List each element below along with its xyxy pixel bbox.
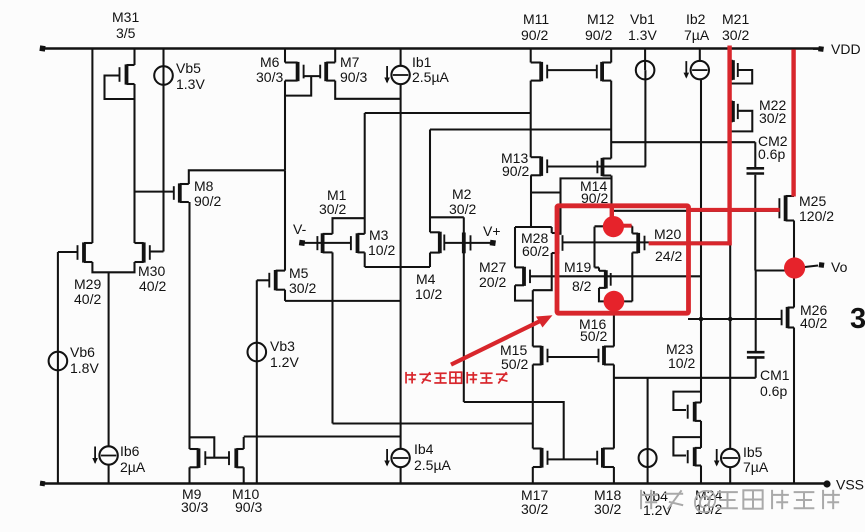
wire M19 drain	[598, 268, 600, 271]
transistor M20	[632, 233, 644, 253]
transistor M15	[533, 346, 548, 365]
voltage source Vb4	[639, 449, 657, 467]
svg-text:30/2: 30/2	[594, 501, 621, 517]
label M19 8/2	[564, 259, 592, 294]
label M4 10/2	[415, 271, 442, 302]
transistor M12	[597, 62, 611, 81]
wire M21 diode hook	[730, 70, 753, 84]
svg-text:1.2V: 1.2V	[643, 502, 672, 518]
wire M13-M15 column	[532, 290, 534, 346]
svg-text:90/3: 90/3	[340, 69, 367, 85]
svg-text:20/2: 20/2	[479, 274, 506, 290]
label M1 30/2	[319, 187, 347, 217]
red annotation arrow	[451, 315, 553, 364]
svg-text:30/2: 30/2	[521, 501, 548, 517]
wire M4 source down	[429, 253, 431, 267]
wire M3 M4 source bus	[365, 266, 430, 268]
wire Vo node link	[756, 269, 794, 271]
wire M1 drain link	[333, 218, 365, 234]
label M20 24/2	[654, 226, 682, 264]
label Ib1 2.5uA	[412, 54, 450, 85]
label M24 10/2	[695, 487, 722, 517]
wire M28 drain	[551, 227, 553, 233]
wire tail drop to Ib6	[108, 272, 110, 447]
transistor M18	[597, 448, 614, 468]
transistor M22	[730, 101, 738, 122]
wire CM1 top lead	[755, 271, 757, 352]
transistor M26	[782, 307, 794, 328]
svg-text:M5: M5	[289, 265, 309, 281]
wire CM2 top lead	[754, 142, 756, 167]
svg-text:VSS: VSS	[836, 477, 864, 493]
transistor M8	[174, 183, 189, 202]
wire M4 drain link	[430, 216, 464, 218]
svg-text:7µA: 7µA	[743, 459, 769, 475]
label Ib5 7uA	[743, 444, 769, 475]
transistor M16	[599, 346, 614, 365]
svg-text:CM1: CM1	[760, 367, 790, 383]
wire M10 drain up	[243, 437, 245, 449]
transistor M29	[78, 242, 93, 262]
node VSS terminal	[823, 480, 830, 487]
svg-text:1.2V: 1.2V	[270, 354, 299, 370]
transistor M1	[317, 233, 332, 253]
wire M22 diode hook	[730, 111, 753, 132]
label M5 30/2	[289, 265, 316, 296]
label M2 30/2	[449, 186, 476, 217]
wire M26 gate line	[688, 318, 782, 320]
wire M21 drain to VDD	[729, 49, 731, 61]
wire M3 source down	[364, 252, 366, 267]
svg-text:50/2: 50/2	[501, 356, 528, 372]
svg-text:10/2: 10/2	[668, 355, 695, 371]
label M23 10/2	[666, 341, 695, 371]
svg-text:V-: V-	[293, 221, 307, 237]
wire Vb3 line	[256, 280, 258, 483]
label M3 10/2	[368, 227, 395, 258]
svg-text:M29: M29	[74, 276, 101, 292]
capacitor CM2	[747, 168, 765, 173]
transistor M3	[351, 233, 365, 253]
svg-text:7µA: 7µA	[684, 27, 710, 43]
svg-text:2.5µA: 2.5µA	[414, 457, 452, 473]
transistor M24	[688, 447, 701, 466]
wire M8 drain up and bus to M6 drain	[189, 170, 285, 184]
svg-text:60/2: 60/2	[522, 243, 549, 259]
wire M16 source to M18	[613, 365, 615, 449]
label M25 120/2	[799, 193, 834, 224]
transistor M23	[688, 402, 701, 422]
wire Ib4 to VSS	[400, 467, 402, 484]
svg-text:Vb5: Vb5	[176, 60, 201, 76]
wire M1 source cross bus	[333, 422, 533, 424]
node VDD terminal	[813, 46, 824, 52]
label M16 50/2	[579, 316, 607, 344]
label M22 30/2	[759, 97, 786, 126]
svg-text:30/2: 30/2	[289, 280, 316, 296]
transistor M27	[515, 267, 530, 286]
wire tail bus	[285, 300, 401, 302]
wire M12 drain to VDD	[610, 49, 612, 63]
wire M6 diode hook	[285, 76, 311, 96]
wire branch up segment	[561, 178, 612, 192]
wire V+ gate line	[444, 242, 490, 244]
wire M20 drain up	[631, 226, 633, 233]
wire CM2 bottom to Vo node	[754, 175, 756, 271]
transistor M28	[552, 232, 563, 253]
svg-text:Vb6: Vb6	[70, 344, 95, 360]
svg-text:Vo: Vo	[831, 259, 848, 275]
svg-text:2µA: 2µA	[120, 459, 146, 475]
transistor M5	[269, 270, 285, 290]
transistor M30	[135, 242, 150, 262]
red highlight M25 drain wire	[791, 50, 795, 197]
wire M23 source to M24	[700, 421, 702, 448]
svg-text:M12: M12	[587, 11, 614, 27]
wire node A horizontal	[595, 225, 633, 227]
watermark zhihu text	[641, 485, 840, 515]
svg-text:30/2: 30/2	[759, 110, 786, 126]
wire M13 source column	[530, 175, 532, 227]
label CM2 0.6p	[758, 133, 788, 162]
wire M9 source to VSS	[188, 467, 190, 483]
label M11 90/2	[521, 11, 549, 43]
transistor M10	[229, 448, 244, 468]
wire M13 source branch	[531, 191, 561, 193]
wire branch down to M28 gate	[559, 193, 561, 235]
wire Vb5 bottom to M30 gate	[150, 250, 164, 252]
wire Ib2 top to VDD	[699, 49, 701, 62]
wire M22 source down	[729, 121, 731, 142]
label M14 90/2	[580, 178, 608, 206]
svg-text:M30: M30	[138, 263, 165, 279]
svg-text:30/3: 30/3	[256, 69, 283, 85]
transistor M7	[320, 62, 335, 81]
label Ib4 2.5uA	[414, 441, 452, 473]
wire cascode node line left	[365, 112, 531, 114]
voltage source Vb6	[49, 352, 68, 371]
label M28 60/2	[521, 230, 549, 259]
wire M29 drain to VDD	[91, 49, 93, 244]
wire M8 source down to M9 drain	[188, 202, 190, 449]
current source Ib1	[384, 66, 410, 84]
wire M18 source to VSS	[613, 467, 615, 484]
transistor M9	[190, 448, 206, 468]
label Vb6 1.8V	[70, 344, 99, 376]
net label VDD	[831, 41, 861, 57]
label M6 30/3	[256, 54, 283, 85]
svg-text:Ib5: Ib5	[743, 444, 763, 460]
current source Ib5	[714, 449, 740, 467]
svg-text:50/2: 50/2	[580, 328, 607, 344]
wire M15 M16 gate line	[548, 356, 599, 358]
wire Ib1 top to VDD	[400, 49, 402, 67]
label M30 40/2	[138, 263, 166, 294]
svg-text:M2: M2	[452, 186, 472, 202]
label M18 30/2	[594, 487, 621, 517]
wire M5 source to tail bus	[284, 290, 286, 301]
wire M10 source to VSS	[243, 467, 245, 483]
wire M12 source to M14	[610, 81, 612, 159]
wire CM2 feed line	[611, 141, 755, 143]
svg-text:90/2: 90/2	[502, 163, 529, 179]
wire M9 M10 gate line	[205, 457, 229, 459]
svg-text:40/2: 40/2	[800, 315, 827, 331]
node Vo red dot	[784, 257, 805, 278]
current source Ib4	[384, 449, 410, 467]
wire M7 drain bus to Ib1 line	[335, 81, 400, 99]
label M15 50/2	[500, 342, 528, 372]
svg-text:2.5µA: 2.5µA	[412, 69, 450, 85]
svg-text:M20: M20	[654, 226, 681, 242]
wire M11 M12 gate line	[547, 69, 597, 71]
label M21 30/2	[722, 11, 749, 43]
red annotation text floating-voltage-source-section	[406, 372, 507, 384]
transistor M14	[597, 158, 611, 176]
node B red dot	[604, 291, 625, 312]
transistor M11	[531, 62, 548, 81]
wire M2 source down	[463, 253, 465, 402]
wire M10 drain bus to Ib4 line	[244, 435, 401, 437]
svg-text:30/3: 30/3	[181, 499, 208, 515]
svg-text:M21: M21	[722, 11, 749, 27]
wire M24 source to VSS	[700, 466, 702, 484]
svg-text:90/3: 90/3	[235, 499, 262, 515]
wire M5 gate to Vb3	[257, 279, 270, 281]
transistor M19	[599, 270, 611, 288]
red stub right of node A	[623, 224, 632, 228]
wire Vb1 top to VDD	[644, 49, 646, 71]
svg-text:Ib6: Ib6	[120, 443, 140, 459]
node V- input	[293, 221, 307, 246]
svg-text:3/5: 3/5	[116, 25, 136, 41]
transistor M21	[730, 60, 738, 80]
svg-text:30/2: 30/2	[319, 201, 346, 217]
wire cascode node line right	[430, 128, 611, 130]
wire Ib2 column down to M23	[700, 79, 702, 403]
svg-text:Ib4: Ib4	[414, 441, 434, 457]
wire M11 source to M13	[530, 81, 532, 158]
red highlight M20 gate link	[649, 241, 732, 245]
wire V- gate line	[304, 242, 351, 244]
label M13 90/2	[501, 150, 529, 179]
wire node A left vertical	[595, 227, 600, 268]
label M7 90/3	[340, 54, 367, 85]
node V+ input	[483, 223, 501, 246]
wire M2 drain up	[463, 217, 465, 233]
svg-text:M19: M19	[564, 259, 591, 275]
wire M26 source to VSS	[793, 328, 795, 484]
wire M14 source down to node A	[610, 176, 612, 228]
svg-text:M11: M11	[523, 11, 549, 27]
wire Ib6 to VSS	[108, 464, 110, 484]
red highlight M25 gate link	[687, 208, 780, 212]
svg-text:24/2: 24/2	[655, 248, 682, 264]
label CM1 0.6p	[760, 367, 790, 399]
svg-text:90/2: 90/2	[194, 193, 221, 209]
wire M29 M30 source bus	[92, 262, 134, 272]
wire M6 drain down	[284, 81, 286, 171]
wire Ib5 to VSS	[729, 467, 731, 484]
svg-text:M8: M8	[194, 178, 214, 194]
transistor M4	[430, 232, 444, 254]
transistor M13	[531, 157, 548, 176]
label Vb1 1.3V	[628, 11, 657, 43]
svg-text:M31: M31	[112, 9, 139, 25]
label M12 90/2	[585, 11, 614, 43]
wire M2 source to class-AB gates	[464, 402, 564, 459]
wire bias column to Ib5	[729, 142, 731, 449]
label M10 90/3	[232, 486, 262, 515]
svg-text:M27: M27	[479, 259, 506, 275]
svg-text:@: @	[692, 485, 718, 515]
capacitor CM1	[747, 352, 765, 357]
wire VSS rail	[40, 481, 824, 487]
label Vb3 1.2V	[270, 338, 299, 370]
wire M15 source to M17	[532, 365, 534, 449]
svg-text:VDD: VDD	[831, 41, 861, 57]
wire M21 source to M22	[729, 79, 731, 101]
red highlight vertical at M21	[727, 46, 731, 246]
label M26 40/2	[800, 302, 827, 331]
current source Ib6	[92, 446, 118, 464]
svg-text:M6: M6	[260, 54, 280, 70]
wire M5 drain up to M6 node	[284, 170, 286, 270]
svg-text:Vb1: Vb1	[630, 11, 655, 27]
svg-text:120/2: 120/2	[799, 208, 834, 224]
red drop from box to node A	[610, 206, 614, 218]
wire M13 M14 gate line	[547, 165, 646, 167]
svg-text:10/2: 10/2	[368, 242, 395, 258]
label M27 20/2	[479, 259, 506, 290]
wire M23 diode hook	[673, 392, 701, 410]
wire M9 diode link	[190, 437, 215, 457]
wire M28 gate line	[563, 241, 731, 243]
svg-text:40/2: 40/2	[139, 278, 166, 294]
wire Vb1 to cascode gates	[644, 70, 646, 166]
svg-text:Ib1: Ib1	[412, 54, 432, 70]
node A red dot	[603, 216, 624, 237]
wire Vb4 line	[647, 378, 649, 484]
wire M17 source to VSS	[532, 467, 534, 484]
svg-text:1.3V: 1.3V	[176, 76, 205, 92]
wire M27 drain up	[514, 227, 516, 267]
wire M1 source down	[331, 252, 333, 423]
wire M25 source to Vo	[793, 221, 795, 308]
red highlight box floating voltage source	[557, 206, 689, 313]
label M31 3/5	[112, 9, 139, 41]
wire M25 drain to VDD	[793, 49, 795, 197]
svg-text:10/2: 10/2	[415, 286, 442, 302]
wire CM1 bottom lead	[755, 359, 757, 378]
wire Vb5 line	[162, 49, 164, 252]
net label VSS	[836, 477, 864, 493]
wire M25 gate line	[612, 210, 780, 212]
svg-text:40/2: 40/2	[74, 291, 101, 307]
svg-text:90/2: 90/2	[585, 27, 612, 43]
wire node A up to M25 gate line	[610, 211, 612, 227]
voltage source Vb3	[247, 343, 266, 362]
voltage source Vb5	[154, 66, 173, 85]
svg-text:M7: M7	[340, 54, 360, 70]
svg-text:1.8V: 1.8V	[70, 360, 99, 376]
wire M31 source column to M30 drain	[133, 84, 135, 243]
svg-text:V+: V+	[483, 223, 501, 239]
svg-text:M4: M4	[416, 271, 436, 287]
transistor M31	[120, 64, 135, 84]
transistor M2	[464, 233, 471, 254]
node junction dots	[699, 317, 733, 322]
node Vo terminal	[796, 259, 848, 275]
voltage source Vb1	[636, 61, 655, 80]
wire M6 top to VDD	[284, 49, 286, 63]
wire node B down to M16	[613, 301, 615, 346]
label Vb4 1.2V	[643, 488, 672, 518]
svg-text:1.3V: 1.3V	[628, 27, 657, 43]
transistor M17	[533, 448, 548, 468]
wire M27 M28 drain bus	[515, 226, 552, 228]
wire M31 drain to VDD	[133, 49, 135, 66]
wire Ib1 output column	[400, 84, 402, 450]
label M8 90/2	[194, 178, 221, 209]
label Vb5 1.3V	[176, 60, 205, 92]
svg-text:Ib2: Ib2	[686, 11, 706, 27]
label Ib6 2uA	[120, 443, 146, 475]
label figure number 3	[850, 303, 865, 335]
wire M20 source down	[631, 253, 633, 302]
svg-text:M25: M25	[799, 193, 826, 209]
svg-text:30/2: 30/2	[449, 201, 476, 217]
svg-text:0.6p: 0.6p	[760, 383, 787, 399]
svg-text:90/2: 90/2	[521, 27, 548, 43]
label M17 30/2	[521, 487, 548, 517]
wire M3 drain column up	[364, 113, 366, 234]
wire VDD rail	[39, 45, 819, 51]
wire M27 M19 gate line	[530, 275, 701, 277]
transistor M25	[779, 195, 794, 221]
transistor M6	[285, 62, 304, 81]
label Ib2 7uA	[684, 11, 710, 43]
label M29 40/2	[74, 276, 101, 307]
svg-text:M3: M3	[369, 227, 389, 243]
svg-text:Vb3: Vb3	[270, 338, 295, 354]
wire class-AB node line	[614, 377, 756, 379]
svg-text:30/2: 30/2	[722, 27, 749, 43]
wire M29 gate lead	[58, 251, 78, 253]
wire M11 drain to VDD	[530, 49, 532, 63]
label M9 30/3	[181, 486, 208, 515]
wire M4 drain column up	[429, 130, 431, 233]
wire M7 top to VDD	[334, 49, 336, 63]
wire M8 gate to M31 source node	[135, 191, 174, 193]
wire M27 source	[515, 285, 533, 300]
wire M19 source	[599, 288, 632, 302]
svg-text:3: 3	[850, 303, 865, 335]
wire M24 diode hook	[673, 437, 701, 455]
wire Vb6 line	[57, 252, 59, 484]
current source Ib2	[684, 61, 710, 79]
svg-text:8/2: 8/2	[572, 278, 592, 294]
wire M31 gate diode loop	[105, 76, 134, 100]
wire M6 M7 gate line	[304, 75, 321, 77]
wire M28 source	[533, 253, 552, 290]
wire M17 M18 gate line	[548, 458, 598, 460]
svg-text:0.6p: 0.6p	[758, 146, 785, 162]
